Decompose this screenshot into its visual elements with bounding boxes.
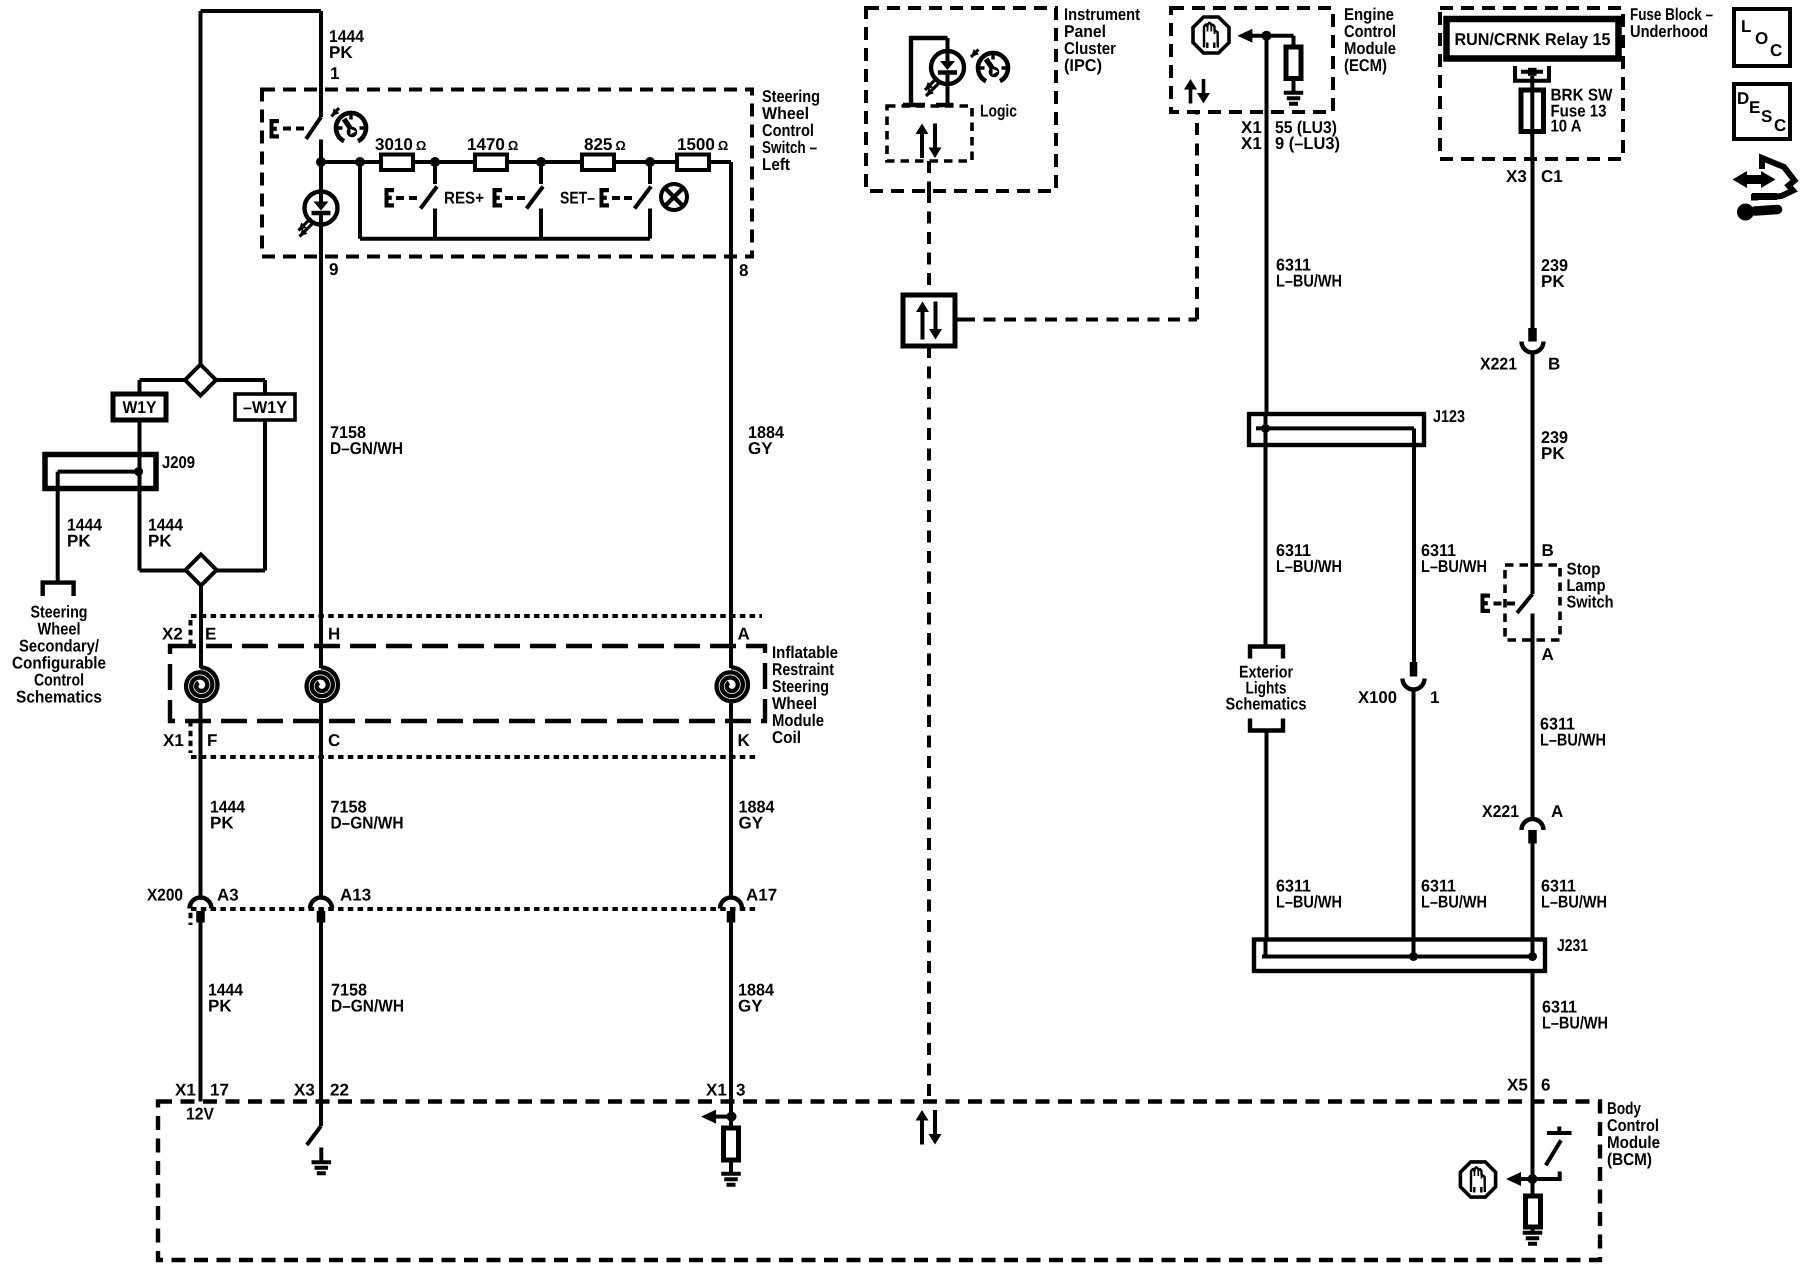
- wire fuse to pin C1: [1530, 132, 1534, 160]
- switch S2 (left stalk) upper stub: [433, 162, 437, 184]
- wire ladder bottom rail: [360, 237, 650, 241]
- svg-text:X5: X5: [1507, 1076, 1528, 1095]
- resistor 3010 ohm: [381, 155, 413, 171]
- svg-text:O: O: [1755, 29, 1768, 48]
- svg-text:1: 1: [330, 64, 339, 83]
- LED D1 (illumination) on 7158 branch: [319, 162, 323, 191]
- svg-text:GY: GY: [739, 814, 764, 833]
- label BRK SW Fuse 13 10 A: [1551, 86, 1614, 136]
- pin tick fuse block C1: [1524, 157, 1540, 162]
- node J123: [1261, 424, 1270, 433]
- wire stop lamp switch lower: [1531, 614, 1535, 641]
- svg-text:Left: Left: [762, 155, 790, 174]
- svg-text:PK: PK: [1541, 272, 1565, 291]
- pin tick X2-A: [724, 614, 738, 619]
- wire 1884 to X200: [729, 757, 733, 898]
- svg-text:A17: A17: [746, 886, 777, 905]
- label wire 1884 GY (mid): [739, 798, 776, 833]
- pin tick pin 1: [313, 88, 329, 93]
- svg-text:L–BU/WH: L–BU/WH: [1542, 1014, 1608, 1033]
- pin tick pin 9: [313, 254, 329, 259]
- svg-text:J209: J209: [162, 453, 195, 472]
- svg-text:X3: X3: [1506, 167, 1527, 186]
- splice J209 box: [45, 455, 156, 489]
- wire 7158 to X200: [319, 757, 323, 898]
- svg-text:PK: PK: [210, 814, 234, 833]
- wire coil L1 stubs: [199, 640, 204, 757]
- connector X221-B terminal: [1528, 328, 1537, 342]
- svg-text:GY: GY: [738, 997, 763, 1016]
- wire to splice diamond (bottom): [140, 569, 266, 573]
- serial data arrows (logic): [916, 124, 942, 159]
- serial data gateway box: [903, 295, 955, 346]
- svg-text:6: 6: [1541, 1076, 1550, 1095]
- pin tick X2-E: [194, 614, 208, 619]
- label wire 6311 L-BU/WH (col1 low): [1276, 877, 1342, 912]
- pin tick BCM 3: [723, 1099, 739, 1104]
- serial data arrows (gateway): [916, 302, 942, 340]
- node J209: [134, 467, 143, 476]
- svg-text:C: C: [1770, 41, 1782, 60]
- connector X221-A terminal: [1522, 819, 1544, 830]
- pin tick stop lamp A: [1525, 638, 1540, 643]
- wire 1444 PK to X200: [199, 757, 203, 898]
- resistor BCM pull-down: [724, 1128, 739, 1160]
- svg-text:–W1Y: –W1Y: [243, 398, 288, 417]
- label wire 1884 GY (upper): [748, 423, 785, 458]
- svg-text:PK: PK: [67, 532, 91, 551]
- svg-text:X221: X221: [1482, 802, 1519, 821]
- svg-text:D–GN/WH: D–GN/WH: [331, 814, 404, 833]
- svg-text:3010Ω: 3010Ω: [375, 135, 426, 154]
- svg-text:Logic: Logic: [980, 102, 1017, 121]
- label Steering Wheel Control Switch - Left: [762, 87, 820, 174]
- svg-text:X221: X221: [1480, 355, 1517, 374]
- svg-text:H: H: [328, 625, 340, 644]
- connector X1 end tick: [189, 721, 193, 753]
- serial data wire logic to IPC pin: [927, 161, 931, 191]
- node BCM 6311: [1528, 1174, 1538, 1184]
- wire J209 to lower junction: [138, 472, 142, 571]
- off-page bracket exterior lights (bottom): [1250, 719, 1283, 731]
- connector X200-A3 terminal: [190, 898, 212, 909]
- svg-text:L–BU/WH: L–BU/WH: [1421, 893, 1487, 912]
- node BCM 1884: [727, 1112, 737, 1122]
- svg-text:(ECM): (ECM): [1344, 56, 1387, 75]
- svg-text:9 (–LU3): 9 (–LU3): [1275, 134, 1340, 153]
- switch S3 E actuator: [493, 188, 526, 208]
- svg-text:D: D: [1737, 89, 1749, 108]
- wire 6311 J231 to BCM: [1531, 971, 1535, 1102]
- module box Fuse Block - Underhood: [1440, 8, 1623, 159]
- serial data wire gateway to BCM: [927, 346, 931, 1102]
- switch S2 lower stub: [433, 209, 437, 239]
- splice J231 box: [1254, 940, 1545, 972]
- module box Stop Lamp Switch: [1505, 565, 1560, 640]
- svg-text:D–GN/WH: D–GN/WH: [331, 997, 404, 1016]
- pin tick BCM 17: [193, 1099, 209, 1104]
- node row-B: [355, 157, 365, 167]
- signal arrow (1884 to other circuit): [716, 1115, 730, 1119]
- svg-text:Underhood: Underhood: [1630, 22, 1708, 41]
- svg-text:PK: PK: [329, 43, 353, 62]
- svg-text:E: E: [205, 625, 216, 644]
- svg-text:825Ω: 825Ω: [584, 135, 626, 154]
- serial data wire IPC to gateway box: [927, 191, 931, 295]
- node row-A: [316, 157, 326, 167]
- node J231-1: [1409, 952, 1418, 961]
- label Fuse Block - Underhood: [1630, 5, 1713, 41]
- LOC reference box: [1734, 9, 1790, 66]
- splice diamond (bottom): [186, 555, 217, 586]
- ground G-BCM1: [319, 1148, 323, 1162]
- splice J231 inner wire: [1262, 940, 1533, 957]
- pin tick pin 8: [723, 254, 739, 259]
- svg-text:K: K: [738, 731, 751, 750]
- pin tick BCM X5-6: [1525, 1099, 1541, 1104]
- svg-text:PK: PK: [208, 997, 232, 1016]
- resistor 1470 ohm: [475, 155, 507, 171]
- module box Inflatable Restraint Steering Wheel Module Coil: [170, 646, 765, 721]
- switch stop lamp: [1531, 565, 1535, 594]
- svg-text:1: 1: [1430, 688, 1439, 707]
- ground G-ECM: [1292, 79, 1296, 92]
- svg-text:B: B: [1542, 541, 1554, 560]
- pin tick X1-K: [724, 755, 738, 760]
- component -W1Y: [235, 394, 295, 420]
- svg-text:A: A: [1551, 802, 1563, 821]
- wire 6311 J123 to exterior lights: [1264, 414, 1268, 645]
- LED D2 cruise indicator: [946, 38, 950, 51]
- signal arrow to stop icon: [1521, 1177, 1531, 1181]
- pin tick BCM serial: [921, 1099, 937, 1104]
- label coil module: [772, 643, 838, 747]
- svg-text:J231: J231: [1557, 936, 1588, 955]
- wire relay to fuse: [1530, 76, 1534, 92]
- svg-text:L–BU/WH: L–BU/WH: [1421, 557, 1487, 576]
- svg-text:(IPC): (IPC): [1064, 56, 1102, 75]
- svg-text:X1: X1: [1241, 134, 1262, 153]
- wire 6311 ECM to J123: [1265, 36, 1269, 414]
- pin tick IPC serial: [921, 189, 937, 194]
- label wire 1444 PK (top): [329, 27, 364, 62]
- wire J209 branch 1444 PK to off-page: [56, 472, 60, 581]
- label wire 1444 PK (left): [67, 516, 102, 551]
- DESC reference box: [1734, 84, 1790, 139]
- wire 1500 ohm to pin 8: [729, 162, 733, 257]
- svg-text:X1: X1: [706, 1081, 727, 1100]
- svg-text:X2: X2: [162, 625, 183, 644]
- label wire 1444 PK (right): [148, 516, 183, 551]
- wire switch to resistor ladder node: [319, 140, 323, 163]
- serial data wire gateway to ECM (horizontal): [955, 318, 963, 322]
- svg-text:J123: J123: [1433, 407, 1465, 426]
- svg-text:C: C: [328, 731, 340, 750]
- resistor 825 ohm: [582, 155, 614, 171]
- connector line X2 (dotted): [191, 614, 762, 618]
- wire 239 PK fuse to X221: [1531, 159, 1535, 328]
- label wire 6311 L-BU/WH (col2 low): [1421, 877, 1487, 912]
- svg-text:X100: X100: [1358, 688, 1397, 707]
- svg-text:GY: GY: [748, 439, 773, 458]
- svg-text:A: A: [738, 625, 750, 644]
- pin tick X1-F: [194, 755, 208, 760]
- label wire 6311 L-BU/WH (to BCM): [1542, 998, 1608, 1033]
- logic box (dashed): [887, 106, 972, 161]
- module box Instrument Panel Cluster (IPC): [866, 8, 1056, 191]
- label wire 1884 GY (lower): [738, 981, 775, 1016]
- svg-text:W1Y: W1Y: [123, 398, 158, 417]
- svg-text:PK: PK: [148, 532, 172, 551]
- svg-text:L: L: [1741, 17, 1751, 36]
- label wire 7158 D-GN/WH (mid): [331, 798, 404, 833]
- svg-text:Coil: Coil: [772, 728, 801, 747]
- svg-text:E: E: [1749, 98, 1760, 117]
- pin tick X2-H: [314, 614, 328, 619]
- svg-text:X3: X3: [294, 1081, 315, 1100]
- svg-text:X200: X200: [147, 886, 183, 905]
- label wire 6311 L-BU/WH (J123 left): [1276, 541, 1342, 576]
- serial data arrows (ECM): [1184, 79, 1210, 104]
- wire 6311 switch to X221-A: [1531, 640, 1535, 819]
- wire 6311 inside BCM: [1531, 1102, 1535, 1197]
- connector X200-A13 terminal: [310, 898, 332, 909]
- svg-text:A3: A3: [217, 886, 239, 905]
- svg-text:1470Ω: 1470Ω: [467, 135, 518, 154]
- relay output terminal: [1515, 66, 1549, 83]
- wire ladder left leg: [358, 162, 362, 239]
- svg-text:D–GN/WH: D–GN/WH: [330, 439, 403, 458]
- svg-text:L–BU/WH: L–BU/WH: [1276, 893, 1342, 912]
- switch BCM internal (7158 to ground): [319, 1102, 323, 1127]
- svg-text:9: 9: [329, 260, 338, 279]
- svg-text:B: B: [1548, 355, 1560, 374]
- wire W1Y to J209: [138, 420, 142, 472]
- wire resistor ladder row: [321, 160, 731, 164]
- module box Engine Control Module (ECM): [1171, 8, 1333, 112]
- indicator block (cruise telltale): [903, 38, 954, 105]
- connector line X1 (dotted): [191, 755, 756, 759]
- wire 1884 X200 to BCM: [729, 923, 733, 1102]
- svg-text:F: F: [207, 731, 217, 750]
- wire -W1Y to lower junction: [263, 420, 267, 571]
- svg-text:S: S: [1761, 107, 1772, 126]
- wire 1444 PK X200 to BCM: [199, 923, 203, 1102]
- off-page bracket exterior lights (top): [1250, 647, 1283, 659]
- label wire 6311 L-BU/WH (col3 low): [1541, 877, 1607, 912]
- coil L2 (pin H-C): [307, 667, 338, 701]
- wire 7158 through coil L2: [319, 257, 323, 758]
- switch S4 upper stub: [648, 162, 652, 184]
- svg-text:Schematics: Schematics: [16, 688, 102, 707]
- svg-text:L–BU/WH: L–BU/WH: [1540, 731, 1606, 750]
- fuse element wire: [1530, 92, 1534, 136]
- svg-text:10 A: 10 A: [1551, 117, 1582, 136]
- svg-text:SET–: SET–: [560, 189, 595, 208]
- relay RUN/CRNK Relay 15: [1447, 19, 1619, 59]
- wire 6311 J123 to X100: [1412, 445, 1416, 662]
- node J231-2: [1528, 952, 1537, 961]
- wire to ECM pull-up resistor: [1292, 36, 1296, 47]
- label wire 6311 L-BU/WH (ECM): [1276, 256, 1342, 291]
- wire 239 PK X221 to stop lamp switch: [1531, 353, 1535, 566]
- wire 6311 exterior lights to J231: [1265, 731, 1269, 940]
- svg-text:L–BU/WH: L–BU/WH: [1276, 557, 1342, 576]
- fuse BRK SW Fuse 13 10A: [1521, 90, 1544, 132]
- svg-text:X1: X1: [163, 731, 184, 750]
- switch BCM internal (6311 sense): [1533, 1172, 1560, 1180]
- node ECM 6311: [1262, 31, 1272, 41]
- wire diamond to -W1Y: [216, 380, 265, 394]
- wire 1444 PK feed (top loop): [201, 11, 322, 365]
- wire pin1 to on/off switch: [319, 11, 323, 117]
- switch S3 blade: [527, 187, 544, 209]
- label wire 6311 L-BU/WH (J123 right): [1421, 541, 1487, 576]
- svg-text:C1: C1: [1541, 167, 1563, 186]
- svg-text:L–BU/WH: L–BU/WH: [1276, 272, 1342, 291]
- serial data arrows (BCM): [916, 1110, 942, 1145]
- wire 7158 X200 to BCM: [319, 923, 323, 1102]
- coil L1 (pin E-F): [186, 667, 217, 701]
- svg-text:Schematics: Schematics: [1226, 695, 1307, 714]
- wire diamond to coil module pin E: [199, 586, 203, 643]
- svg-text:(BCM): (BCM): [1607, 1150, 1652, 1169]
- pin tick stop lamp B: [1525, 563, 1540, 568]
- connector X200-A17 terminal: [720, 898, 742, 909]
- resistor ECM pull-up: [1286, 47, 1301, 79]
- component W1Y: [113, 394, 166, 420]
- pin tick BCM 22: [313, 1099, 329, 1104]
- label Stop Lamp Switch: [1567, 560, 1614, 612]
- splice J123 inner wire: [1256, 428, 1414, 445]
- label wire 7158 D-GN/WH (upper): [330, 423, 403, 458]
- ground G-BCM2: [729, 1160, 733, 1172]
- ground G-BCM3: [1531, 1227, 1535, 1231]
- coil L3 (pin A-K): [717, 667, 748, 701]
- pin tick ECM serial: [1188, 110, 1204, 115]
- svg-text:L–BU/WH: L–BU/WH: [1541, 893, 1607, 912]
- label wire 6311 L-BU/WH (switch out): [1540, 715, 1606, 750]
- pin tick X1-C: [314, 755, 328, 760]
- label wire 239 PK (upper): [1541, 256, 1568, 291]
- switch S4 lower stub: [648, 209, 652, 239]
- switch S4 blade: [635, 187, 652, 209]
- svg-text:A13: A13: [340, 886, 371, 905]
- label Body Control Module (BCM): [1607, 1099, 1660, 1169]
- gauge icon (IPC): [978, 53, 1008, 81]
- serial data wire riser to ECM: [1195, 112, 1199, 320]
- svg-text:C: C: [1774, 116, 1786, 135]
- svg-text:1500Ω: 1500Ω: [677, 135, 728, 154]
- off-page bracket (steering wheel secondary): [43, 583, 74, 596]
- connector X200 end tick: [189, 903, 193, 925]
- node row-E: [645, 157, 655, 167]
- gauge icon (cruise): [336, 113, 366, 141]
- connector X100 terminal: [1410, 662, 1418, 677]
- svg-text:22: 22: [330, 1081, 349, 1100]
- signal arrow into icon: [1237, 29, 1252, 43]
- splice J209 inner wire: [58, 470, 139, 474]
- svg-text:X1: X1: [175, 1081, 196, 1100]
- svg-text:3: 3: [736, 1081, 745, 1100]
- switch S3 upper stub: [539, 162, 543, 184]
- connector line X200 (dotted): [191, 907, 756, 911]
- svg-text:Switch: Switch: [1567, 593, 1614, 612]
- label wire 1444 PK (mid): [210, 798, 245, 833]
- label Engine Control Module (ECM): [1344, 5, 1396, 75]
- switch S1 cruise on/off (E actuator): [270, 108, 340, 139]
- module box Steering Wheel Control Switch - Left: [262, 90, 752, 257]
- label wire 239 PK (lower): [1541, 428, 1568, 463]
- wire diamond to W1Y: [140, 380, 186, 394]
- label Steering Wheel Secondary/Configurable Control Schematics: [12, 603, 106, 707]
- resistor 1500 ohm: [677, 155, 709, 171]
- switch S2 blade: [421, 187, 438, 209]
- lamp (backlight) symbol: [661, 184, 687, 210]
- svg-text:8: 8: [739, 261, 748, 280]
- resistor BCM 6311 pull: [1526, 1196, 1541, 1227]
- pin tick ECM 6311: [1259, 110, 1275, 115]
- wire 1884 inside BCM: [729, 1102, 733, 1129]
- stop lamp signal icon (BCM): [1460, 1162, 1495, 1197]
- label Instrument Panel Cluster (IPC): [1064, 5, 1140, 75]
- splice J123 box: [1249, 414, 1424, 445]
- svg-text:17: 17: [210, 1081, 229, 1100]
- svg-text:PK: PK: [1541, 444, 1565, 463]
- module box Body Control Module (BCM): [158, 1102, 1600, 1261]
- svg-text:A: A: [1542, 645, 1554, 664]
- wire 1884 through coil L3: [729, 257, 733, 758]
- node row-D: [536, 157, 546, 167]
- connector X2 end tick: [189, 620, 193, 646]
- stop lamp signal icon (ECM): [1193, 17, 1229, 53]
- svg-text:RES+: RES+: [444, 189, 484, 208]
- switch S3 lower stub: [539, 209, 543, 239]
- splice diamond (top): [185, 365, 216, 396]
- wire 6311 X221-A to J231: [1531, 844, 1535, 940]
- label wire 7158 D-GN/WH (lower): [331, 981, 404, 1016]
- switch S2 E actuator: [385, 188, 418, 208]
- svg-text:RUN/CRNK Relay 15: RUN/CRNK Relay 15: [1455, 30, 1611, 49]
- switch S4 E actuator: [600, 188, 633, 208]
- wire 6311 X100 to J231: [1412, 690, 1416, 940]
- quick-link icon (arrows and wrench): [1732, 158, 1794, 221]
- node row-C: [430, 157, 440, 167]
- label Exterior Lights Schematics: [1226, 663, 1307, 714]
- svg-text:12V: 12V: [186, 1105, 215, 1124]
- label wire 1444 PK (lower): [208, 981, 243, 1016]
